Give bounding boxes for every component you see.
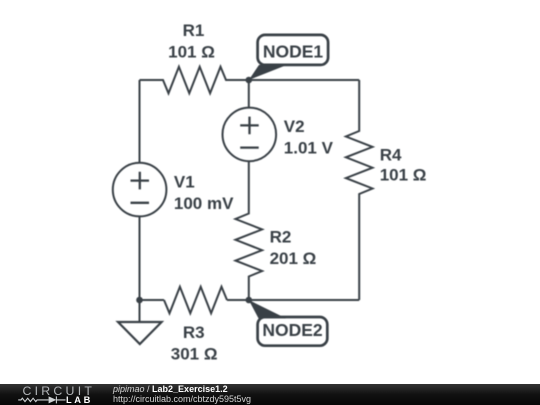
svg-text:NODE1: NODE1 <box>263 42 324 62</box>
svg-text:R1: R1 <box>183 21 205 40</box>
svg-text:LAB: LAB <box>66 395 93 405</box>
svg-text:201 Ω: 201 Ω <box>270 249 317 268</box>
svg-text:301 Ω: 301 Ω <box>171 345 218 364</box>
svg-text:100 mV: 100 mV <box>174 194 234 213</box>
svg-text:101 Ω: 101 Ω <box>380 165 427 184</box>
svg-text:101 Ω: 101 Ω <box>168 42 215 61</box>
svg-text:V2: V2 <box>284 117 305 136</box>
svg-text:1.01 V: 1.01 V <box>284 138 334 157</box>
svg-text:R4: R4 <box>380 145 402 164</box>
svg-text:R2: R2 <box>270 227 292 246</box>
svg-text:NODE2: NODE2 <box>262 320 323 340</box>
svg-text:R3: R3 <box>183 323 205 342</box>
svg-text:V1: V1 <box>174 172 195 191</box>
